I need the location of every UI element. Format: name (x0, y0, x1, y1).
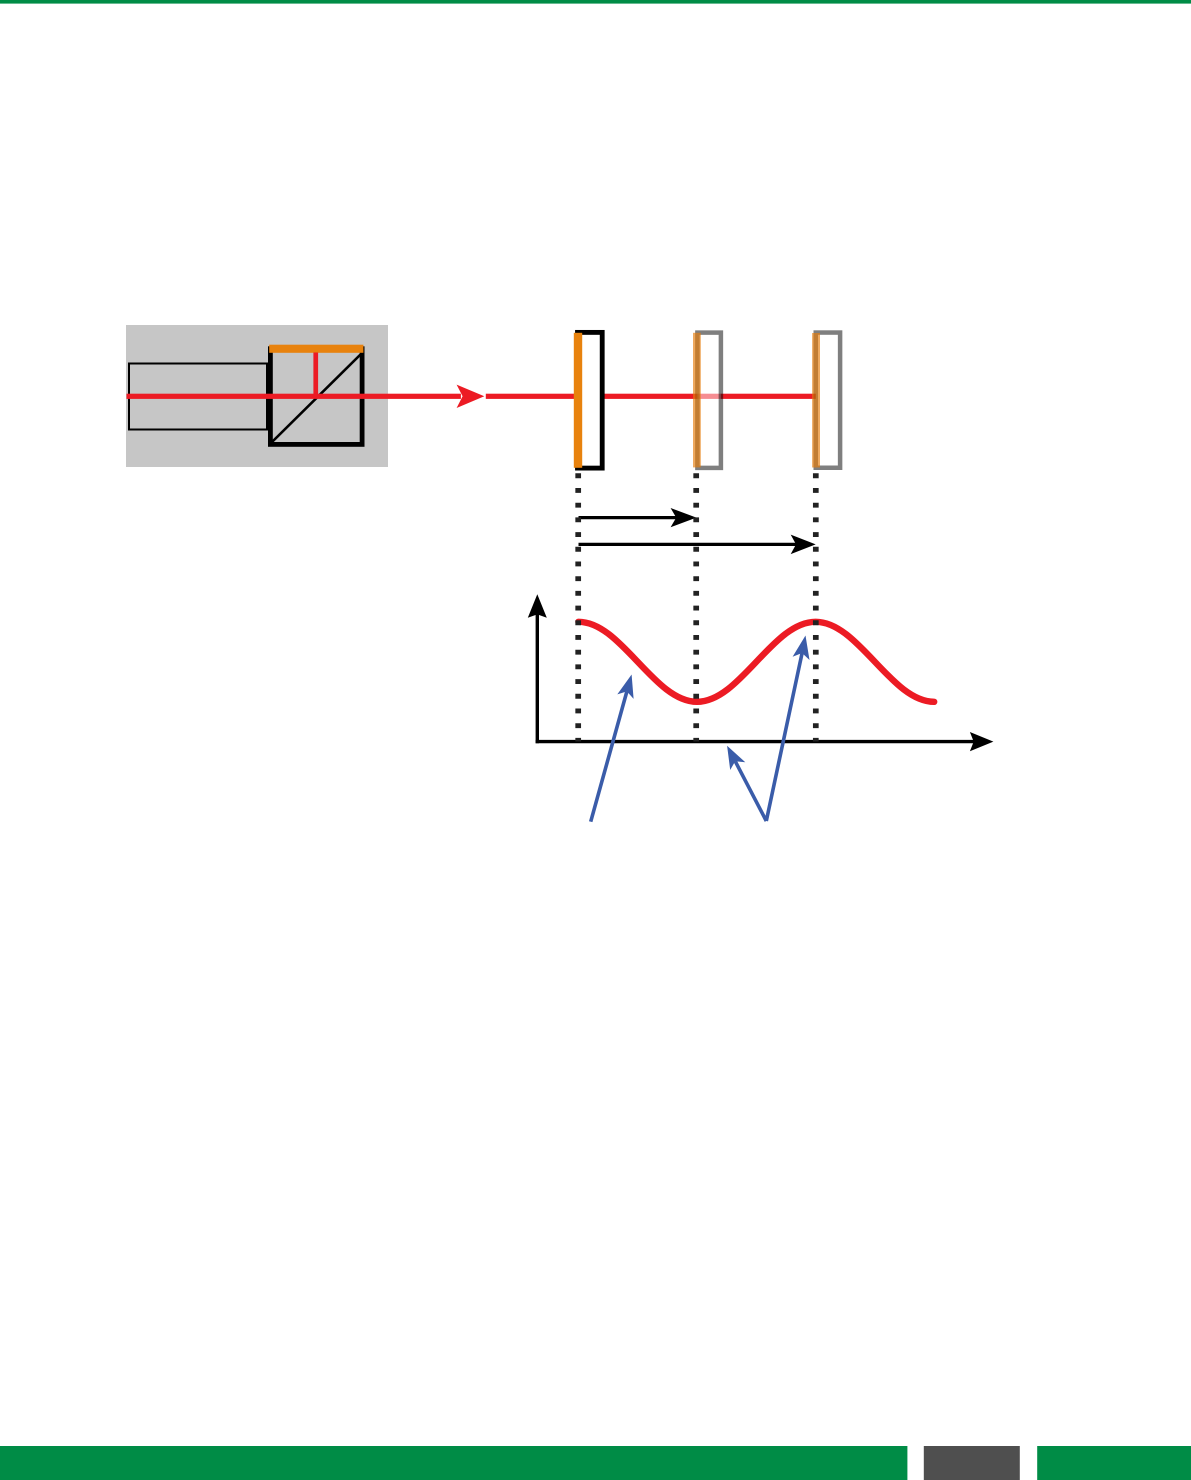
mirror M2 glass (semi-transparent) (697, 333, 721, 468)
blue annotation arrow 1 (591, 691, 627, 821)
dotted reference line M3 (813, 473, 819, 741)
dotted reference line M1 (575, 473, 581, 741)
laser beam segment 1 (127, 394, 461, 399)
mirror M1 glass (578, 332, 603, 468)
bottom gray page-number block (924, 1446, 1020, 1480)
laser housing gray box (126, 325, 388, 467)
laser beam segment 2 (486, 394, 816, 399)
red beam arrowhead (457, 385, 485, 408)
dotted reference line M2 (693, 473, 699, 741)
blue annotation arrow 3 (766, 653, 802, 821)
graph x-axis (536, 740, 974, 743)
blue annotation arrow 2 (735, 761, 766, 821)
bottom green bar right (1037, 1446, 1191, 1480)
beam splitter diagonal (272, 354, 362, 443)
intensity sine curve (578, 622, 934, 702)
beam splitter cube (270, 349, 362, 445)
graph y-axis (536, 613, 539, 743)
photodiode orange bar on cube (269, 345, 363, 353)
mirror M1 coating (574, 333, 582, 468)
distance arrow d2 (579, 543, 798, 546)
distance arrow d1 (579, 516, 678, 519)
mirror M3 coating (812, 333, 820, 468)
mirror M2 coating (693, 333, 701, 468)
bottom green bar left (0, 1446, 907, 1480)
reflected red beam (vertical) (313, 353, 318, 399)
top green header bar (0, 0, 1191, 4)
laser tube (129, 364, 267, 430)
mirror M3 glass (semi-transparent) (816, 333, 840, 468)
